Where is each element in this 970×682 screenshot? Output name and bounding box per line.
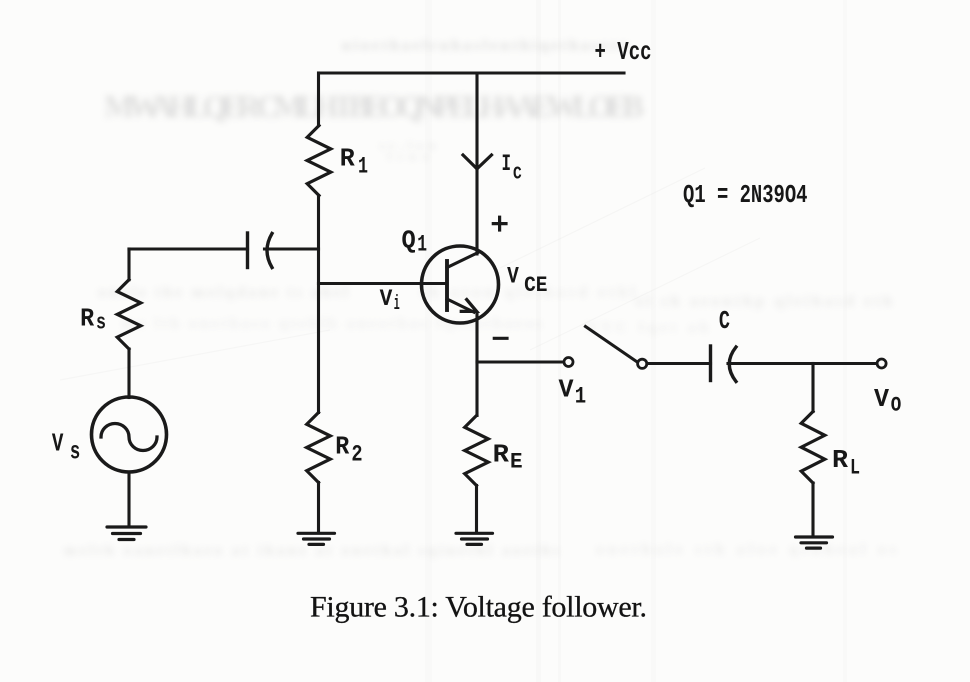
label Vs xyxy=(52,429,80,467)
svg-text:R: R xyxy=(493,439,510,469)
svg-text:CE: CE xyxy=(524,273,547,298)
transistor Q1 xyxy=(422,246,499,323)
label Ic xyxy=(502,151,522,184)
svg-text:Figure 3.1: Voltage follower.: Figure 3.1: Voltage follower. xyxy=(310,591,647,624)
svg-text:R: R xyxy=(832,445,848,475)
svg-text:I: I xyxy=(502,151,512,177)
switch arm xyxy=(586,327,637,362)
wire left branch: R1 to R2 xyxy=(317,196,320,413)
resistor R1 xyxy=(307,126,331,196)
svg-text:o: o xyxy=(891,389,902,419)
svg-text:el sh aeonthp qleihasd eth: el sh aeonthp qleihasd eth xyxy=(636,293,892,310)
svg-text:R: R xyxy=(340,144,355,174)
svg-text:1: 1 xyxy=(358,154,368,180)
ground under R2 xyxy=(298,533,335,544)
wire emitter to V1 node xyxy=(477,360,563,363)
wire Vcc top rail xyxy=(319,71,624,74)
label Q1 at transistor xyxy=(402,226,428,258)
wire collector: rail to transistor xyxy=(475,73,478,254)
wire Rs to source xyxy=(127,349,130,398)
svg-text:V: V xyxy=(559,375,574,405)
svg-text:R: R xyxy=(80,304,94,334)
faint fold streaks xyxy=(60,168,760,380)
label Rs xyxy=(80,304,106,336)
resistor R2 xyxy=(307,413,331,483)
capacitor coupling input xyxy=(248,233,273,268)
svg-text:Q1 = 2N39O4: Q1 = 2N39O4 xyxy=(683,181,808,210)
source Vs xyxy=(92,397,167,472)
label Vo xyxy=(874,384,902,419)
resistor Rs xyxy=(117,280,141,349)
svg-text:s: s xyxy=(70,438,80,467)
svg-text:V: V xyxy=(874,384,889,414)
ground under RL xyxy=(796,537,833,548)
ghost bleed-through texture xyxy=(64,38,896,559)
wire RE to ground xyxy=(475,486,478,532)
label R2 xyxy=(335,432,362,468)
svg-text:+ Vcc: + Vcc xyxy=(595,37,652,67)
svg-text:s: s xyxy=(96,309,106,335)
svg-text:1: 1 xyxy=(575,383,586,409)
node V1 terminal xyxy=(564,358,573,367)
svg-text:V: V xyxy=(380,286,393,312)
minus sign below VCE xyxy=(494,337,507,340)
svg-text:2: 2 xyxy=(351,442,362,468)
wire switch to capacitor C xyxy=(647,362,711,365)
svg-text:R: R xyxy=(335,432,349,462)
switch pole terminal xyxy=(638,359,647,368)
label VCE xyxy=(507,264,547,299)
wire capacitor to base branch xyxy=(265,247,319,250)
wire base xyxy=(319,282,448,285)
arrow Ic current xyxy=(463,155,492,169)
svg-text:i: i xyxy=(394,293,400,316)
svg-text:C: C xyxy=(513,164,522,184)
svg-text:Q: Q xyxy=(402,226,416,256)
wire R2 to ground xyxy=(317,483,320,532)
svg-text:uioethaelruhaslenthiqethasero: uioethaelruhaslenthiqethasero xyxy=(342,38,628,54)
wire source to ground xyxy=(127,472,130,526)
label V1 xyxy=(559,375,587,410)
svg-text:L: L xyxy=(850,456,860,481)
wire capacitor to Vo xyxy=(728,362,877,365)
node Vo terminal xyxy=(877,359,886,368)
svg-text:V: V xyxy=(507,264,519,290)
label RL xyxy=(832,445,860,481)
svg-text:V: V xyxy=(52,429,64,459)
wire left branch: rail to R1 xyxy=(317,73,320,126)
label Vi xyxy=(380,286,400,316)
wire source branch to Rs xyxy=(127,249,130,280)
wire input top xyxy=(129,247,248,250)
wire junction down to RL xyxy=(811,364,814,412)
ground under Vs xyxy=(107,527,146,540)
ground under RE xyxy=(456,533,493,544)
svg-text:MWAHLQER CML HTBEOQNPELHA AEWL: MWAHLQER CML HTBEOQNPELHA AEWLOEB xyxy=(104,88,644,124)
capacitor C xyxy=(711,346,737,382)
wire emitter down xyxy=(475,313,478,416)
plus sign above VCE xyxy=(493,217,506,230)
svg-text:C: C xyxy=(719,306,730,336)
label RE xyxy=(493,439,523,474)
resistor RL xyxy=(801,412,825,484)
svg-text:E: E xyxy=(510,449,523,475)
svg-text:1: 1 xyxy=(417,232,427,258)
label R1 xyxy=(340,144,368,180)
resistor RE xyxy=(465,416,489,486)
wire RL to ground xyxy=(811,483,814,536)
svg-text:NYC lqet ah: NYC lqet ah xyxy=(586,320,709,336)
faint scanner streaks xyxy=(425,0,847,682)
